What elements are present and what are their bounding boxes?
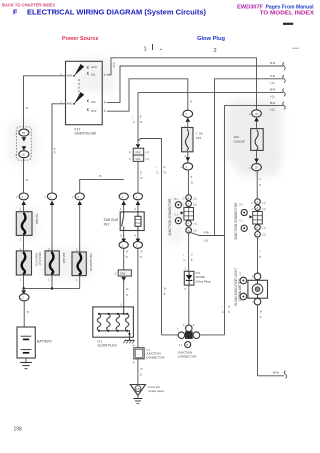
scan shading blobs	[9, 58, 282, 278]
svg-text:EB1: EB1	[120, 271, 126, 275]
segmented body	[253, 212, 263, 225]
top circle pin	[186, 325, 193, 332]
svg-text:1: 1	[144, 47, 147, 53]
exit wire to right	[258, 375, 285, 377]
bus wire	[24, 287, 80, 289]
branch wire to indicator column	[138, 139, 162, 335]
svg-text:C: C	[252, 208, 254, 211]
svg-text:GAUGE: GAUGE	[234, 140, 245, 144]
bottom rail	[99, 330, 127, 332]
svg-text:1): 1)	[183, 259, 185, 262]
svg-text:1A2: 1A2	[135, 157, 140, 161]
junction dot	[22, 287, 25, 290]
wire below diode	[188, 285, 190, 325]
fuse 7.5A STA box	[182, 128, 193, 152]
wire break H4	[283, 89, 286, 97]
wire down	[256, 171, 258, 200]
dashed lever link	[78, 79, 80, 97]
svg-text:A: A	[256, 200, 258, 204]
svg-text:ELECTRICAL WIRING DIAGRAM (Sys: ELECTRICAL WIRING DIAGRAM (System Circui…	[27, 10, 206, 17]
meter box	[248, 280, 268, 298]
connector EB1 box	[118, 270, 131, 276]
wire H1 from IG1 to GAUGE drop	[107, 58, 257, 75]
center block	[185, 332, 192, 339]
rail dots	[98, 313, 100, 315]
connector oval 2	[19, 151, 29, 158]
lamp symbol	[257, 280, 259, 284]
connector oval	[252, 164, 262, 171]
branch jog to P-B column	[189, 232, 225, 236]
wire from relay pin4	[137, 248, 139, 347]
ground (hatched)	[125, 339, 135, 341]
bottom circle pin	[254, 298, 261, 305]
svg-text:50A GLOW AB: 50A GLOW AB	[89, 254, 93, 271]
svg-text:80A ALT(-2): 80A ALT(-2)	[38, 253, 41, 266]
svg-text:D: D	[183, 324, 185, 327]
svg-text:7. 5A: 7. 5A	[196, 132, 204, 136]
svg-text:1): 1)	[132, 121, 134, 124]
wire down to junction connector	[187, 170, 189, 195]
side pins	[175, 202, 181, 208]
svg-text:C: C	[177, 328, 179, 331]
arrow down to battery connector	[21, 290, 26, 294]
arrow up	[21, 201, 26, 205]
left circle pin	[178, 332, 185, 339]
svg-text:A: A	[188, 222, 190, 226]
svg-text:BACK TO CHAPTER INDEX: BACK TO CHAPTER INDEX	[2, 3, 56, 9]
svg-text:AM1: AM1	[67, 73, 74, 77]
wire from H4 down	[137, 93, 139, 144]
wire H2 from IG2	[107, 66, 283, 102]
ground hatch	[137, 396, 139, 399]
svg-text:EB: EB	[136, 387, 140, 391]
relay contact	[123, 212, 125, 216]
svg-text:B: B	[190, 100, 192, 104]
lower circle	[185, 342, 191, 348]
svg-text:(-2): (-2)	[270, 108, 275, 112]
wire to bus	[23, 275, 25, 288]
svg-text:C: C	[252, 202, 254, 205]
svg-text:4: 4	[104, 100, 106, 104]
svg-text:1(: 1(	[129, 158, 131, 161]
svg-text:(-2): (-2)	[262, 208, 266, 211]
right circle pin	[193, 332, 200, 339]
svg-text:A: A	[188, 202, 190, 206]
wire left from branch column	[162, 334, 179, 336]
svg-text:F: F	[13, 10, 18, 17]
svg-text:DIODE: DIODE	[196, 275, 205, 279]
arrow up	[50, 201, 55, 205]
svg-text:fender apron: fender apron	[149, 389, 165, 393]
switch lever 1	[74, 64, 84, 76]
arrow down	[187, 152, 189, 163]
svg-text:A: A	[133, 360, 135, 364]
wire below	[188, 233, 190, 271]
svg-text:ST2: ST2	[91, 109, 97, 113]
wire H3b P-B segment	[215, 79, 284, 236]
svg-text:1B: 1B	[22, 131, 26, 135]
svg-text:1B: 1B	[254, 166, 258, 170]
battery box	[17, 327, 35, 358]
fusible link 100A ALT box	[16, 251, 31, 275]
svg-text:30A AM2: 30A AM2	[62, 253, 66, 264]
svg-text:R: R	[54, 150, 56, 154]
circle pins on wire	[255, 225, 261, 231]
svg-text:C: C	[183, 204, 185, 207]
side pins	[241, 209, 247, 215]
svg-text:P-B: P-B	[204, 230, 209, 234]
svg-text:IG1: IG1	[91, 73, 96, 77]
segmented body	[184, 208, 194, 221]
svg-text:B-R: B-R	[270, 101, 276, 105]
fuse element	[185, 129, 188, 150]
top circle pin	[254, 273, 261, 280]
pin 1	[123, 205, 125, 212]
svg-text:Glow Plug: Glow Plug	[197, 36, 225, 42]
arrow up	[136, 201, 141, 205]
wire to ground	[137, 359, 139, 385]
connector pair dashed box	[17, 127, 32, 160]
ST2 contact hook	[88, 108, 89, 111]
svg-text:B: B	[27, 310, 29, 314]
svg-text:GLOW PLUG: GLOW PLUG	[98, 344, 118, 348]
arrow down	[121, 239, 126, 243]
svg-text:(-1): (-1)	[270, 81, 275, 85]
circle pins on wire	[186, 195, 192, 201]
wire	[79, 205, 81, 252]
wire break	[284, 371, 287, 379]
svg-text:JUNCTION CONNECTOR: JUNCTION CONNECTOR	[234, 202, 238, 240]
svg-text:1E: 1E	[22, 153, 26, 157]
arrow up	[186, 118, 191, 122]
arrow down	[136, 239, 141, 243]
heater coil 3	[116, 314, 119, 331]
svg-text:CONNECTOR: CONNECTOR	[178, 354, 197, 358]
wire to bus	[51, 275, 53, 288]
circle pins on wire	[255, 199, 261, 205]
connector oval 1	[19, 129, 29, 136]
connector oval row1 col2	[47, 193, 56, 200]
connector 1A1 box	[133, 148, 144, 155]
wire	[23, 158, 25, 193]
wire	[23, 235, 25, 251]
svg-text:100A ALT(-1): 100A ALT(-1)	[34, 253, 37, 267]
fusible link 50A GLOW box	[72, 252, 86, 276]
arrow down	[22, 137, 27, 141]
connector oval	[252, 110, 262, 117]
arrow up	[121, 201, 126, 205]
wire break H5	[283, 102, 286, 110]
section tick	[152, 44, 154, 50]
fusible link 50A GLOW element	[78, 254, 82, 274]
svg-text:(-1): (-1)	[145, 151, 149, 154]
wire below to indicator	[257, 237, 259, 273]
svg-text:1A1: 1A1	[135, 150, 140, 154]
diode symbol	[186, 275, 193, 280]
wire H4	[138, 91, 283, 93]
svg-text:A: A	[256, 206, 258, 210]
svg-text:IGNITION SW: IGNITION SW	[75, 132, 97, 136]
heater coil 2	[107, 314, 110, 331]
glow plug box	[93, 307, 134, 337]
svg-text:(-2): (-2)	[193, 229, 197, 232]
wire below	[257, 305, 259, 376]
fusible link 30A AM2 box	[45, 251, 59, 275]
svg-text:1): 1)	[222, 311, 224, 314]
svg-text:B-R: B-R	[270, 61, 276, 65]
wire	[23, 205, 25, 212]
relay input oval pin1	[119, 193, 128, 200]
junction connector J1 box	[134, 348, 144, 359]
ground triangle EB	[130, 385, 145, 396]
wire from relay pin2	[123, 248, 125, 270]
battery connector oval	[19, 294, 29, 301]
relay output oval pin4	[133, 242, 142, 249]
heater coil 4	[125, 314, 128, 331]
connector oval row1 col3	[75, 193, 84, 200]
svg-text:40A AM1: 40A AM1	[35, 214, 39, 225]
svg-text:B: B	[26, 106, 28, 110]
wire AM2 run	[52, 104, 66, 193]
IG2 contact hook	[88, 100, 89, 103]
svg-text:2: 2	[60, 73, 62, 77]
switch lever 2	[74, 92, 84, 104]
wire break H2	[283, 62, 286, 70]
svg-text:1(: 1(	[129, 151, 131, 154]
wire break H3	[283, 75, 286, 83]
junction dot	[51, 287, 54, 290]
svg-text:(-2): (-2)	[193, 204, 197, 207]
svg-text:SUB GLW: SUB GLW	[104, 218, 118, 222]
svg-text:4: 4	[104, 109, 106, 113]
svg-text:A: A	[256, 233, 258, 237]
wire H3a from ST2 to STA fuse	[107, 79, 188, 111]
feed drop from H1	[256, 58, 258, 110]
svg-text:(-1): (-1)	[193, 222, 197, 225]
arrow down	[121, 277, 126, 281]
pin 2	[123, 231, 125, 240]
relay input oval pin3	[133, 193, 142, 200]
svg-text:(-2): (-2)	[145, 158, 149, 161]
svg-text:AM2: AM2	[67, 101, 74, 105]
wire to glow plugs	[123, 276, 125, 307]
svg-text:198: 198	[14, 426, 23, 432]
fusible link 30A AM2 element	[50, 253, 54, 274]
svg-text:B: B	[186, 343, 188, 347]
svg-text:ACC: ACC	[91, 65, 97, 69]
diode D6 box	[184, 271, 194, 285]
svg-text:(-1): (-1)	[193, 198, 197, 201]
svg-text:(-1): (-1)	[270, 94, 275, 98]
svg-text:Pages From Manual: Pages From Manual	[266, 5, 314, 11]
svg-text:B: B	[26, 178, 28, 182]
fusible link 40A AM1 box	[16, 212, 32, 236]
svg-text:(-2): (-2)	[262, 233, 266, 236]
ACC contact hook	[88, 66, 89, 69]
pin 3	[137, 205, 139, 212]
arrow up	[77, 201, 82, 205]
relay coil	[135, 216, 141, 226]
svg-text:C: C	[183, 198, 185, 201]
svg-text:Power Source: Power Source	[62, 36, 99, 42]
svg-text:EWD307F: EWD307F	[237, 5, 264, 11]
feed drop	[123, 307, 125, 314]
svg-text:RLY: RLY	[104, 222, 111, 226]
heater coil 1	[97, 314, 100, 331]
svg-text:(-1): (-1)	[204, 238, 208, 242]
arrow up	[254, 117, 259, 121]
svg-text:1): 1)	[156, 172, 158, 175]
svg-text:B-R: B-R	[270, 88, 276, 92]
arrow down	[256, 150, 258, 163]
wire	[51, 205, 53, 251]
wire AM1 run	[24, 76, 66, 129]
svg-text:B: B	[54, 147, 56, 151]
svg-text:(-1): (-1)	[262, 202, 266, 205]
fuse 10A GAUGE box	[251, 129, 264, 151]
svg-text:IG2: IG2	[91, 100, 96, 104]
wire H5 B-R(-2) segment	[225, 106, 284, 335]
arrow down into stack	[136, 144, 140, 148]
connector oval row1	[19, 193, 28, 200]
fusible link 100A ALT element	[22, 253, 26, 274]
svg-text:A: A	[256, 226, 258, 230]
svg-text:(Glow Plug): (Glow Plug)	[196, 280, 211, 284]
svg-text:JUNCTION CONNECTOR: JUNCTION CONNECTOR	[168, 198, 172, 236]
svg-text:B: B	[100, 174, 102, 178]
stray scan mark top right	[283, 23, 293, 25]
svg-text:A: A	[188, 196, 190, 200]
IG1 contact hook	[88, 72, 89, 75]
connector oval	[183, 110, 193, 117]
svg-text:(-1): (-1)	[262, 226, 266, 229]
wire from glow feed	[80, 179, 124, 192]
ignition switch F17 box	[66, 61, 103, 124]
pin 4	[137, 231, 139, 240]
connector 1A2 box	[133, 155, 144, 161]
ground exit	[127, 331, 129, 341]
connector oval	[183, 163, 193, 170]
svg-text:4: 4	[104, 73, 106, 77]
svg-text:J 1: J 1	[179, 343, 183, 347]
wire right from P-B column	[200, 334, 224, 336]
arrow down into oval 2	[22, 146, 27, 150]
svg-text:J(: J(	[114, 273, 116, 276]
wire to bus	[79, 276, 81, 289]
svg-text:10A: 10A	[234, 135, 240, 139]
circle pins on wire	[186, 221, 192, 227]
svg-text:2: 2	[214, 48, 217, 54]
fuse element	[255, 130, 258, 149]
svg-text:STA: STA	[196, 136, 203, 140]
svg-text:1B: 1B	[254, 112, 258, 116]
side pins	[240, 277, 247, 284]
wire to battery	[23, 301, 25, 327]
ground below battery	[25, 358, 27, 363]
svg-text:P-B: P-B	[270, 74, 275, 78]
svg-text:BATTERY: BATTERY	[37, 339, 53, 343]
battery cells	[21, 335, 32, 337]
svg-text:W-B: W-B	[273, 370, 279, 374]
relay R-G box	[120, 212, 144, 231]
top rail	[99, 313, 127, 315]
svg-text:TO MODEL INDEX: TO MODEL INDEX	[260, 11, 315, 17]
relay output oval pin2	[119, 242, 128, 249]
svg-text:A: A	[133, 344, 135, 348]
fusible link 40A AM1 element	[22, 214, 26, 234]
wire stack to relay	[137, 161, 139, 192]
svg-text:CONNECTOR: CONNECTOR	[146, 355, 165, 359]
svg-text:R: R	[113, 66, 115, 69]
svg-text:7: 7	[60, 101, 62, 105]
